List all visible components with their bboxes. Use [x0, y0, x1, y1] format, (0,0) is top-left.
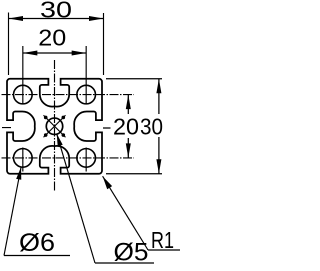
svg-text:R1: R1 [151, 227, 174, 253]
svg-text:Ø5: Ø5 [114, 239, 149, 267]
svg-text:20: 20 [113, 114, 139, 140]
svg-text:30: 30 [40, 0, 72, 23]
svg-text:Ø6: Ø6 [19, 229, 55, 257]
svg-text:20: 20 [38, 25, 66, 51]
svg-text:30: 30 [140, 114, 163, 140]
